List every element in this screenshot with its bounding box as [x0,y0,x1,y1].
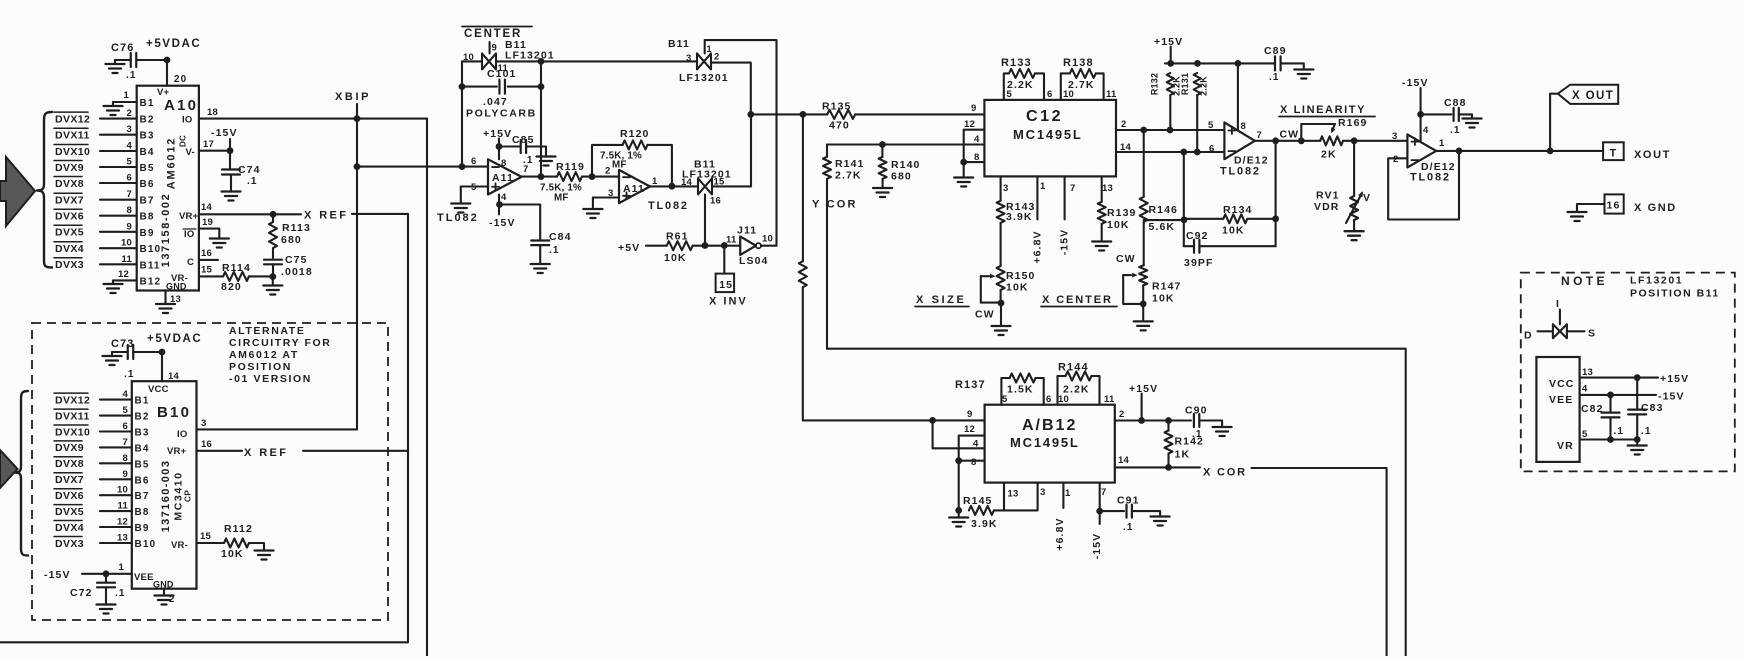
svg-text:DVX4: DVX4 [55,522,84,534]
power +5VDAC (A10) [146,38,201,50]
node DVX4 [54,242,84,255]
wire C12 pin1 +6.8V [1032,176,1044,263]
pin 13 label [117,533,128,544]
switch B11 pins 3-1-2 [668,38,729,84]
svg-text:680: 680 [891,171,912,183]
svg-text:13: 13 [1582,367,1593,378]
junction [1140,301,1147,308]
node DVX5 [54,225,84,238]
wire DVX3 to B10 [100,542,132,544]
capacitor C85 [499,134,556,166]
svg-text:VR+: VR+ [179,211,199,222]
svg-text:C73: C73 [111,338,134,350]
svg-text:2.7K: 2.7K [1068,79,1095,91]
note text [1561,274,1720,300]
svg-text:IO: IO [177,429,187,440]
wire C12 pins 12+8 ground [954,130,984,187]
resistor R114 [199,262,273,293]
svg-text:R134: R134 [1223,204,1253,216]
svg-text:2.2K: 2.2K [1007,79,1034,91]
wire C12 pin14 to D/E12 pin6 [1116,151,1224,153]
wiper R169 [1301,124,1335,141]
svg-text:680: 680 [281,234,302,246]
svg-text:7: 7 [1257,130,1262,141]
terminal 15 X INV [709,246,748,308]
wire DVX6 to A10 [100,215,137,217]
svg-text:X REF: X REF [304,210,348,222]
svg-text:137160-003: 137160-003 [160,460,172,533]
wire [540,61,542,176]
svg-text:+5VDAC: +5VDAC [147,333,202,345]
svg-text:10: 10 [1058,394,1069,405]
junction [1607,392,1614,399]
wire DVX12 to A10 [100,118,137,120]
alternate circuitry dashed box [32,323,388,620]
capacitor C101 [462,68,541,120]
svg-text:DVX3: DVX3 [55,538,84,550]
resistor R142 [1165,421,1205,468]
svg-text:B1: B1 [140,98,155,109]
resistor (unlabeled) to A/B12 [799,114,985,420]
svg-text:B1: B1 [135,396,150,407]
svg-text:.1: .1 [124,369,135,380]
switch legend [1524,298,1596,342]
capacitor C91 [1100,495,1170,534]
svg-text:9: 9 [967,409,972,420]
junction [1140,127,1147,134]
svg-text:14: 14 [681,177,692,188]
svg-text:-15V: -15V [489,217,516,229]
svg-text:B4: B4 [140,147,155,158]
svg-text:19: 19 [202,217,213,228]
svg-text:V: V [1363,192,1371,204]
wire [136,59,167,61]
svg-text:A/B12: A/B12 [1022,417,1077,434]
junction [1298,137,1305,144]
pin 9 label [123,469,128,480]
svg-text:TL082: TL082 [1410,172,1451,184]
IC A/B12 labels [964,394,1129,500]
capacitor C75 [264,254,313,278]
op-amp D/E12 (second) [1392,125,1456,184]
svg-text:VDR: VDR [1314,201,1339,213]
capacitor C90 [1185,405,1232,441]
junction [227,147,234,154]
svg-text:C12: C12 [1026,108,1063,125]
junction [1272,137,1279,144]
svg-text:VEE: VEE [134,572,154,583]
resistor R131 [1180,73,1209,152]
svg-text:R119: R119 [556,161,585,173]
svg-text:C75: C75 [285,254,308,266]
wire DVX12 to B10 [100,399,132,401]
svg-text:5: 5 [1002,394,1008,405]
svg-text:10: 10 [117,485,128,496]
power -15V (A11) [489,195,516,230]
svg-text:1K: 1K [1175,449,1191,461]
svg-text:15: 15 [719,279,733,291]
svg-text:9: 9 [127,221,132,232]
svg-text:B5: B5 [135,459,150,470]
wire DVX9 to B10 [100,446,132,448]
resistor R135 [822,101,984,132]
resistor R169 pot [1320,117,1367,161]
svg-text:B5: B5 [140,163,155,174]
ground [106,60,125,73]
wire switch pin16 down [704,194,706,245]
wire DVX10 to B10 [100,430,132,432]
svg-text:A11: A11 [492,172,514,184]
wire [1343,140,1408,142]
svg-text:.1: .1 [1641,426,1652,437]
capacitor C76 [111,42,137,81]
svg-text:VEE: VEE [1549,394,1573,406]
svg-text:A11: A11 [623,183,645,195]
svg-text:10K: 10K [221,548,244,560]
junction [1165,464,1172,471]
svg-text:6: 6 [127,173,132,184]
wire XBIP vertical [356,104,358,429]
junction [955,457,962,464]
junction [1607,436,1614,443]
svg-text:5: 5 [123,405,129,416]
resistor R120 feedback [592,128,672,186]
wire output to T [1436,150,1603,152]
junction [1165,417,1172,424]
resistor R141 [823,145,865,182]
node DVX12 (B10) [54,393,90,406]
svg-text:POSITION: POSITION [229,361,292,373]
junction [538,58,545,65]
node DVX4 (B10) [54,521,84,534]
wire C12 pin7 -15V [1059,176,1071,255]
svg-text:R144: R144 [1058,362,1089,374]
resistor R132 [1150,73,1182,130]
svg-text:7: 7 [1070,183,1075,194]
svg-text:DVX12: DVX12 [55,113,90,125]
svg-text:17: 17 [203,139,214,150]
junction [164,57,171,64]
svg-text:.1: .1 [126,70,137,81]
svg-text:X OUT: X OUT [1572,90,1614,102]
terminal T XOUT [1603,142,1671,161]
svg-text:Y COR: Y COR [812,199,858,211]
resistor R146 [1140,130,1178,266]
pin 7 label [123,437,128,448]
svg-text:16: 16 [201,439,212,450]
svg-text:9: 9 [971,103,976,114]
bus bracket (A10 inputs) [37,112,52,268]
power +15V (D/E12) [1154,36,1183,63]
resistor R138 [1061,57,1104,100]
svg-text:137158-002: 137158-002 [160,193,172,268]
capacitor C83 [1628,378,1663,440]
pin 12 label [117,517,128,528]
svg-text:CW: CW [1280,129,1300,141]
svg-text:5: 5 [1582,429,1588,440]
ground [1628,440,1647,455]
svg-text:R114: R114 [222,262,251,274]
svg-text:B2: B2 [135,412,150,423]
junction [269,273,276,280]
capacitor C74 [222,151,261,201]
svg-text:3: 3 [686,53,691,64]
svg-text:R145: R145 [963,495,993,507]
svg-text:AM6012: AM6012 [166,137,178,189]
wire pin5 ground [451,187,488,213]
svg-text:18: 18 [207,107,218,118]
svg-text:TL082: TL082 [437,212,479,224]
node DVX8 (B10) [54,457,84,470]
svg-text:1.5K: 1.5K [1007,384,1034,396]
wire [462,60,482,62]
wire pin14 VR+ [199,202,273,214]
resistor R140 [873,145,920,198]
wire output [1255,140,1321,142]
svg-text:C76: C76 [111,42,134,54]
svg-text:DVX6: DVX6 [55,490,84,502]
svg-text:T: T [1610,148,1618,160]
svg-text:3: 3 [127,124,132,135]
wire pins 9-4 jumper [933,420,985,448]
svg-text:7: 7 [127,189,132,200]
power -15V (A10) [211,127,238,151]
svg-text:DVX5: DVX5 [55,506,84,518]
svg-text:C72: C72 [70,587,93,599]
node DVX5 (B10) [54,505,84,518]
svg-text:X GND: X GND [1634,202,1677,214]
node DVX7 (B10) [54,473,84,486]
svg-text:AM6012 AT: AM6012 AT [229,349,299,361]
svg-text:6: 6 [471,156,476,167]
resistor R61 [646,231,740,265]
svg-text:DVX8: DVX8 [55,178,84,190]
svg-text:.1: .1 [1614,426,1625,437]
svg-text:DVX6: DVX6 [55,211,84,223]
svg-text:14: 14 [1118,455,1129,466]
svg-text:12: 12 [118,269,129,280]
wiper R150 [981,274,1001,303]
svg-text:.1: .1 [1450,125,1461,136]
node XBIP [335,91,371,103]
svg-text:X REF: X REF [244,447,288,459]
svg-text:3: 3 [1040,487,1045,498]
svg-text:B2: B2 [140,115,155,126]
svg-text:TL082: TL082 [1220,166,1261,178]
resistor R150 pot [997,223,1036,303]
capacitor C88 [1421,97,1482,136]
wire pin 2 net [1115,419,1191,421]
wire DVX11 to A10 [100,134,137,136]
svg-text:16: 16 [1607,200,1621,212]
node DVX7 [54,193,84,206]
power -15V (B10) [44,562,132,581]
junction [1194,149,1201,156]
svg-text:X INV: X INV [709,296,748,308]
wire DVX5 to A10 [100,231,137,233]
wire DVX7 to A10 [100,199,137,201]
svg-text:LF13201: LF13201 [1630,275,1683,287]
svg-text:POSITION B11: POSITION B11 [1630,288,1720,300]
svg-text:4: 4 [501,192,507,203]
resistor R133 [1001,57,1044,100]
svg-text:I: I [1556,298,1560,310]
IC A/B12 MC1495L outline [985,405,1115,483]
svg-text:B7: B7 [140,196,155,207]
wire pin17 [199,139,230,151]
pin 3 label [127,124,132,135]
svg-text:2: 2 [1393,154,1398,165]
node X LINEARITY [1279,104,1375,117]
IC A10 AM6012 outline [137,86,199,291]
svg-text:B7: B7 [135,491,150,502]
node DVX6 [54,209,84,222]
svg-text:2: 2 [127,108,132,119]
wire DVX6 to B10 [100,494,132,496]
op-amp A11 (first) [437,156,528,224]
power +5V [618,242,640,254]
IC LF13201 block outline [1536,357,1579,462]
svg-text:4: 4 [1582,384,1588,395]
IC B10 inside labels [134,384,193,590]
junction [159,349,166,356]
svg-text:11: 11 [1104,394,1115,405]
pin 2 label [127,108,132,119]
svg-text:B3: B3 [135,428,150,439]
svg-text:4: 4 [123,389,129,400]
wire pin 8 [959,460,985,462]
wire R146 to R134 node [1144,219,1184,221]
pin 10 label [121,238,132,249]
svg-text:LF13201: LF13201 [679,72,729,84]
junction [998,300,1005,307]
svg-text:R131: R131 [1180,73,1190,95]
junction [459,83,466,90]
node DVX3 [54,258,84,271]
svg-text:R150: R150 [1006,270,1036,282]
node DVX3 (B10) [54,537,84,550]
resistor R113 [269,214,311,258]
svg-text:+5VDAC: +5VDAC [146,38,201,50]
junction [702,242,709,249]
wire [115,59,131,61]
wire [496,60,541,62]
svg-text:B10: B10 [140,244,162,255]
wire B11 net to R135 [751,113,827,115]
svg-text:LF13201: LF13201 [505,50,555,62]
pin 5 label [127,157,133,168]
inverter J11 [726,225,773,268]
svg-text:IO: IO [182,115,192,126]
junction [496,143,503,150]
pin 7 label [127,189,132,200]
svg-text:POLYCARB: POLYCARB [466,108,537,120]
svg-text:+6.8V: +6.8V [1054,517,1066,550]
svg-text:+15V: +15V [1660,373,1689,385]
wire pin3 ground [583,198,619,219]
capacitor C73 [111,338,135,380]
junction [1634,374,1641,381]
svg-text:.1: .1 [1123,522,1134,533]
junction [1272,215,1279,222]
wire X REF vertical/bottom [0,214,408,642]
svg-text:10K: 10K [1222,225,1245,237]
resistor R134 feedback [1184,204,1276,237]
junction [538,173,545,180]
wire pin6 branch vertical [1183,152,1185,246]
svg-text:6: 6 [1047,89,1052,100]
junction [354,115,361,122]
wire DVX8 to B10 [100,462,132,464]
wire [461,61,463,166]
svg-text:R147: R147 [1152,281,1182,293]
junction [1167,127,1174,134]
svg-text:C91: C91 [1117,495,1140,507]
svg-text:R146: R146 [1149,204,1179,216]
junction [589,173,596,180]
pin 9 label [127,221,132,232]
svg-text:MC1495L: MC1495L [1013,127,1083,142]
svg-text:R132: R132 [1150,73,1160,95]
svg-text:B11: B11 [140,260,161,271]
wire pins 12-8 jumper [959,436,985,511]
capacitor C72 [70,574,126,614]
ground [103,352,122,365]
wire pin8 stub [1238,63,1246,132]
svg-text:LS04: LS04 [739,255,769,267]
svg-text:DVX4: DVX4 [55,243,84,255]
node DVX8 [54,177,84,190]
wire [711,63,751,115]
svg-text:C101: C101 [487,68,517,80]
svg-text:12: 12 [964,424,975,435]
svg-text:11: 11 [1106,89,1117,100]
svg-text:C88: C88 [1444,97,1467,109]
wire DVX11 to B10 [100,415,132,417]
wire to A11 pin6 [357,166,488,168]
svg-text:+15V: +15V [1154,36,1183,48]
resistor R143 [997,176,1036,223]
svg-text:9: 9 [492,43,497,54]
svg-text:R142: R142 [1175,436,1205,448]
op-amp A11 (second) [605,166,689,213]
svg-text:16: 16 [201,248,212,259]
wire pin5 VR [1580,429,1638,440]
wire feedback vertical [1275,141,1277,246]
junction [747,111,754,118]
junction [1235,60,1242,67]
svg-text:RV1: RV1 [1316,190,1340,202]
wire A/B12 pin1 +6.8V [1054,483,1066,551]
svg-text:CW: CW [1116,253,1136,265]
wiper R147 [1123,273,1143,304]
svg-text:DVX9: DVX9 [55,162,84,174]
svg-text:R139: R139 [1107,207,1137,219]
svg-text:C89: C89 [1264,45,1287,57]
svg-text:.1: .1 [549,245,560,256]
svg-text:1: 1 [119,562,125,573]
node DVX6 (B10) [54,489,84,502]
svg-text:C: C [187,257,194,268]
svg-text:8: 8 [501,158,506,169]
pin 8 label [123,453,128,464]
wire [541,60,697,62]
pin 12 stub + ground (A10 B12) [104,269,137,293]
IC LF13201 labels [1549,378,1574,452]
wire pin19 + ground [199,217,229,248]
wire [133,351,162,353]
svg-text:B9: B9 [135,523,150,534]
